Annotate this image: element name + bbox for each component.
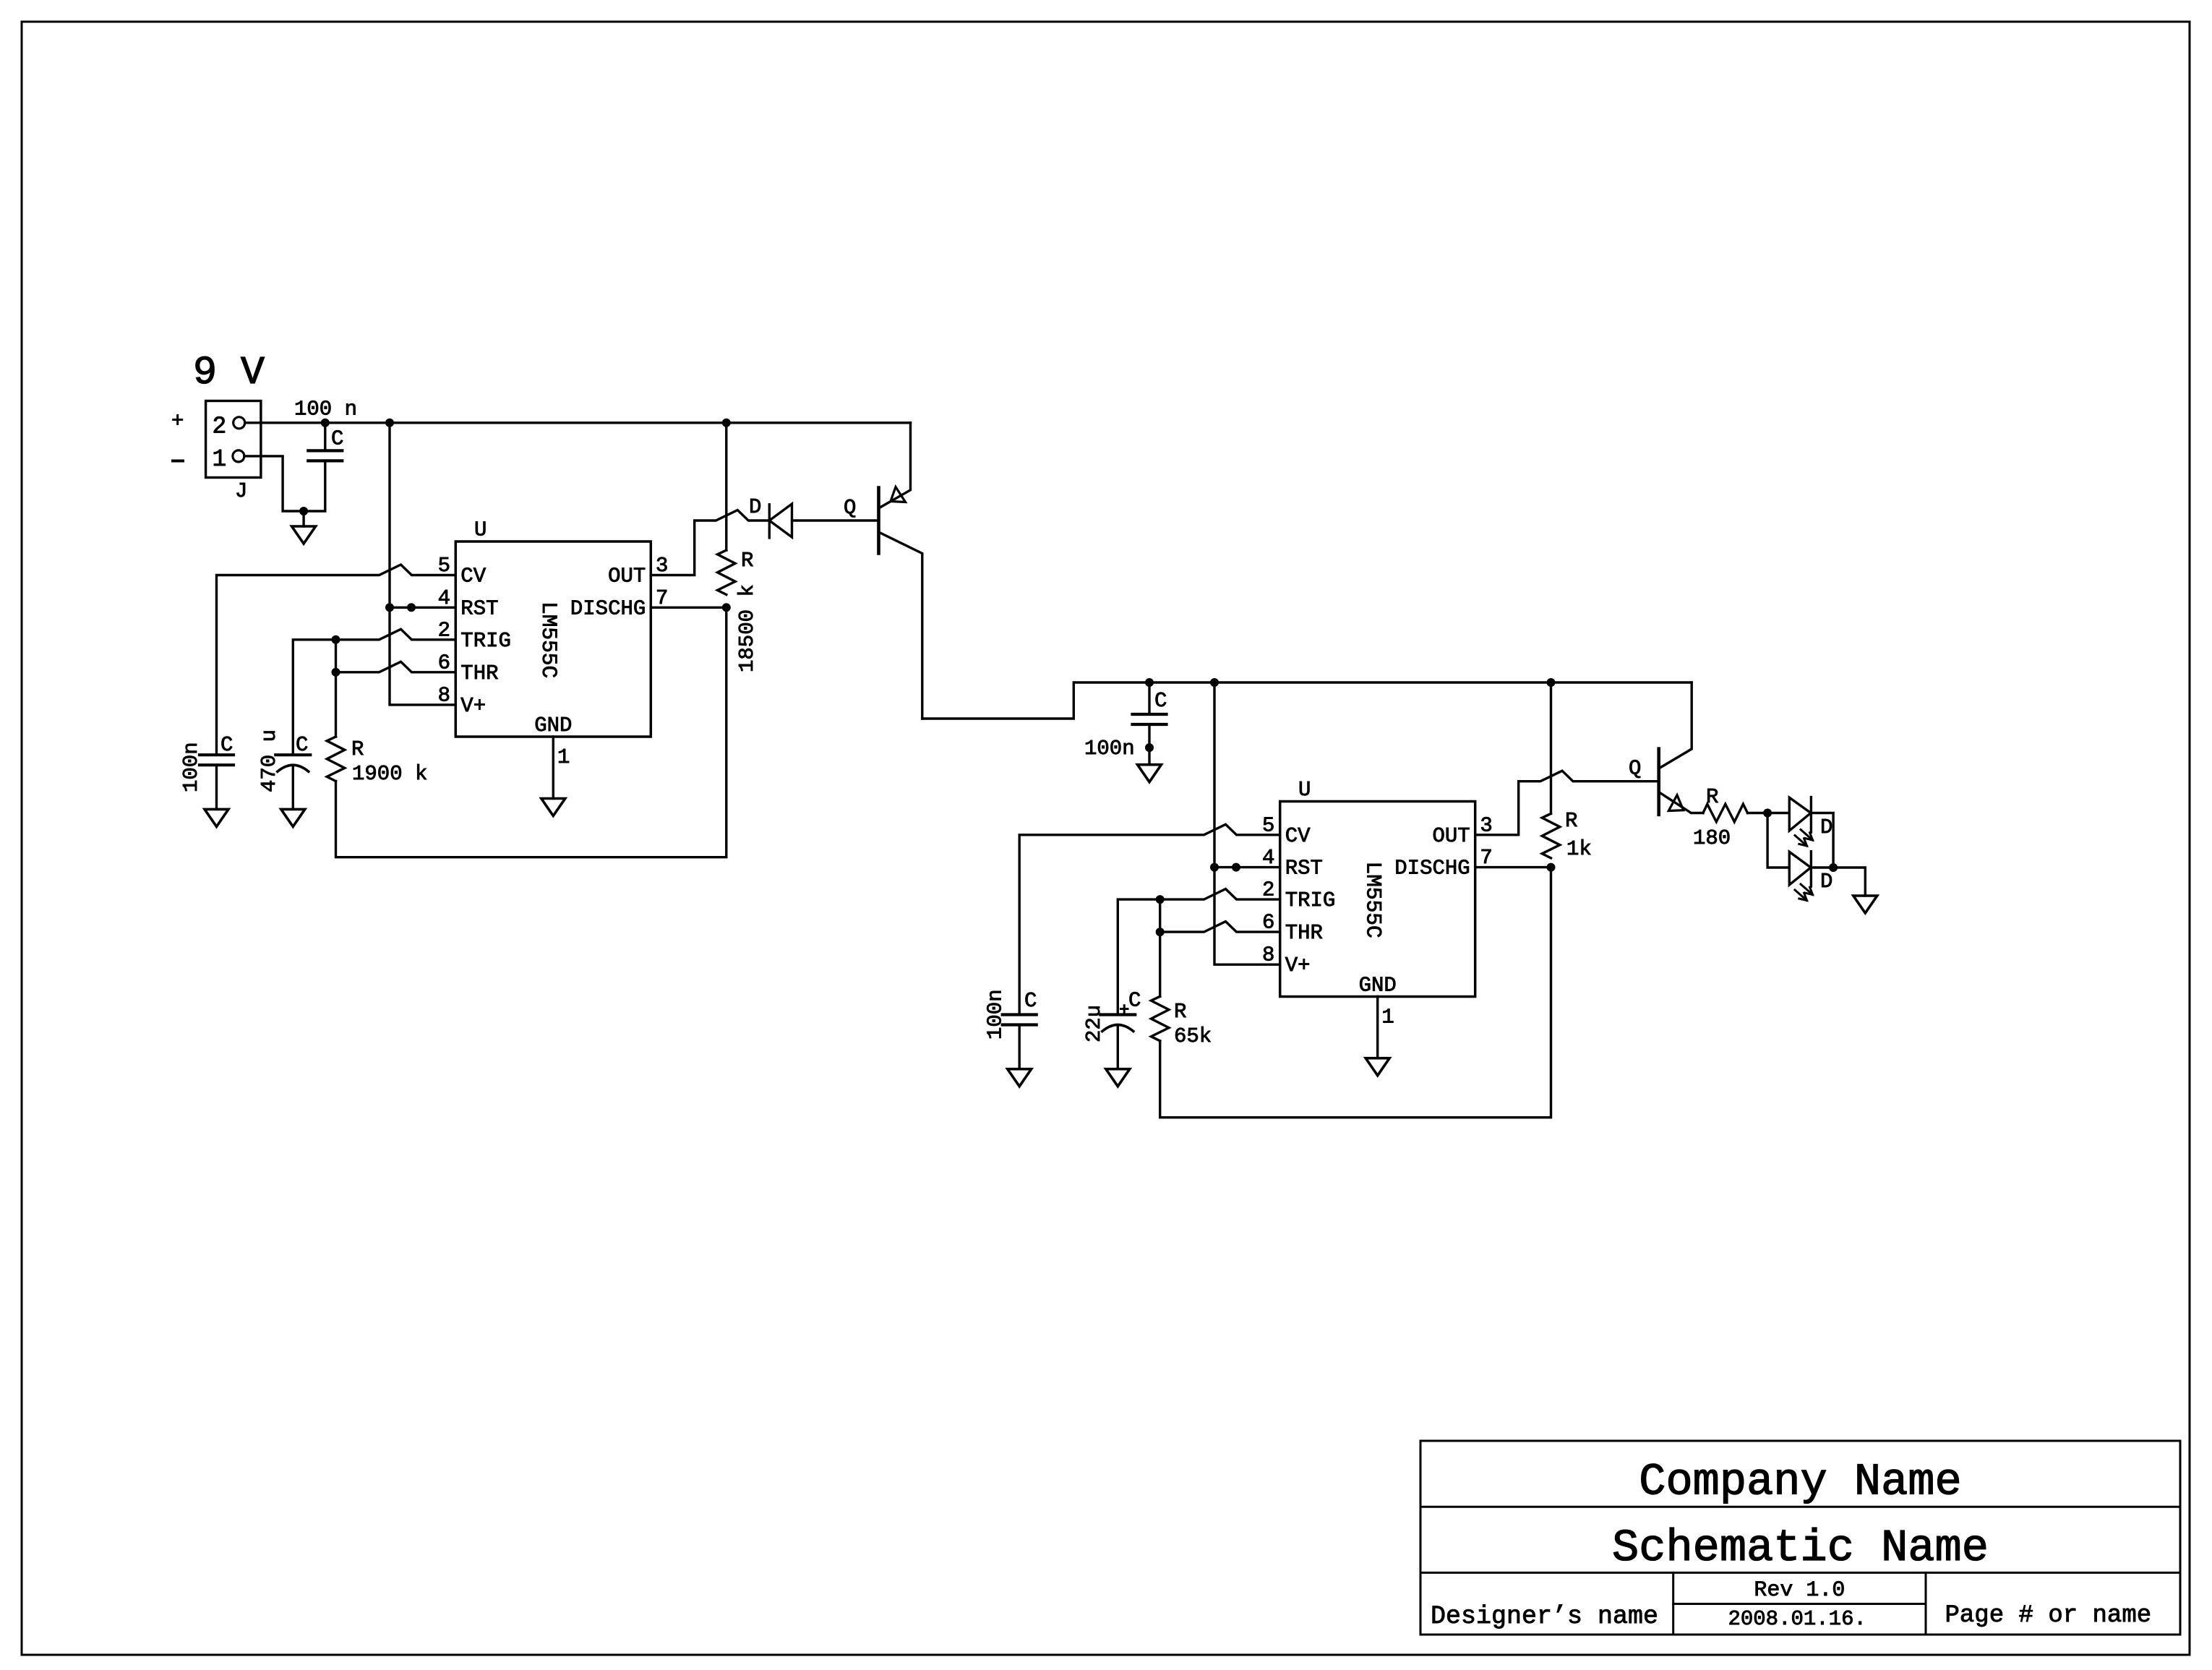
svg-text:TRIG: TRIG — [1285, 888, 1336, 912]
svg-text:Designer’s name: Designer’s name — [1431, 1602, 1658, 1631]
wire diode D1 to Q1 base — [792, 519, 879, 521]
ground symbol below C5 — [1008, 1069, 1032, 1087]
ground symbol below C6 — [1106, 1069, 1130, 1087]
resistor R4 65k zigzag — [1151, 996, 1169, 1041]
LED D3 emission arrows — [1801, 884, 1813, 895]
node junction rail / R1 18500k — [722, 419, 731, 427]
svg-text:Rev 1.0: Rev 1.0 — [1754, 1578, 1845, 1603]
wire TRIG2-THR2 tie down — [1159, 899, 1161, 932]
svg-text:C: C — [331, 427, 343, 451]
transistor Q2 collector to rail2 — [1659, 682, 1692, 768]
connector J1 (battery jack) body — [206, 401, 261, 478]
svg-text:R: R — [1174, 1000, 1186, 1024]
resistor R4 65k lead from THR2 junction — [1159, 932, 1161, 996]
svg-text:DISCHG: DISCHG — [1394, 857, 1470, 881]
svg-text:1: 1 — [557, 745, 570, 769]
svg-text:100n: 100n — [179, 742, 203, 792]
ground symbol below U2 — [1366, 1058, 1389, 1076]
junction dot on RST2 wire — [1232, 863, 1240, 872]
resistor R2 1900k lead from THR junction — [335, 672, 337, 737]
svg-text:J: J — [235, 479, 247, 503]
transistor Q1 PNP base bar — [877, 488, 880, 554]
svg-text:THR: THR — [460, 661, 498, 685]
wire U2 RST net — [1214, 866, 1280, 868]
wire TRIG-THR tie down to R2 — [335, 640, 337, 672]
connector J1 pin 1 circle — [233, 450, 244, 462]
node junction rail / C1 — [321, 419, 330, 427]
svg-text:R: R — [741, 549, 753, 573]
junction RST2 / V+ drop2 — [1210, 863, 1219, 872]
junction above ground (C4) — [1145, 743, 1154, 752]
ground symbol below C4 — [1148, 748, 1150, 765]
svg-text:Q: Q — [844, 496, 856, 520]
svg-text:470 u: 470 u — [257, 729, 281, 792]
junction THR2 / R4 — [1156, 928, 1165, 936]
junction RST / V+ drop — [385, 603, 394, 612]
svg-text:R: R — [351, 737, 364, 761]
svg-text:1: 1 — [1381, 1006, 1394, 1029]
svg-text:65k: 65k — [1174, 1024, 1212, 1048]
wire U1 RST net — [390, 607, 455, 609]
capacitor C1 lower lead — [304, 461, 325, 511]
resistor R3 1k zigzag — [1542, 813, 1560, 858]
ground symbol (battery return) — [302, 511, 304, 526]
svg-text:RST: RST — [1285, 857, 1323, 881]
wire Q1 collector to circuit 2 V+ rail — [922, 682, 1692, 719]
U2 GND pin stem — [1376, 997, 1379, 1058]
LED D2 triangle — [1789, 797, 1811, 831]
svg-text:OUT: OUT — [1432, 824, 1470, 848]
wire U2 CV net with hop to C5 100n — [1019, 824, 1280, 1014]
diode D1 triangle — [769, 504, 792, 537]
junction DISCHG2 / R3 — [1547, 863, 1556, 872]
svg-text:1900 k: 1900 k — [352, 762, 427, 786]
label - (negative terminal) — [173, 460, 183, 463]
svg-text:2008.01.16.: 2008.01.16. — [1728, 1607, 1866, 1631]
svg-text:Page # or name: Page # or name — [1945, 1602, 2152, 1630]
svg-text:C: C — [296, 733, 308, 757]
title block outer frame — [1420, 1441, 2180, 1635]
svg-text:TRIG: TRIG — [460, 629, 511, 653]
title block divider between rev and date — [1673, 1603, 1926, 1605]
transistor Q1 emitter with arrow to rail — [879, 423, 911, 508]
transistor Q2 NPN base bar — [1657, 749, 1660, 815]
resistor R2 1900k zigzag — [327, 737, 345, 782]
LED D2 cathode bar — [1810, 797, 1812, 833]
svg-text:CV: CV — [1285, 824, 1311, 848]
wire U1 CV net with hop to C2 100n — [217, 565, 456, 755]
wire V+ rail from J pin 2 to transistor Q1 emitter drop — [245, 421, 911, 424]
capacitor C6 lower lead — [1117, 1026, 1119, 1069]
svg-text:LM555C: LM555C — [1361, 862, 1386, 938]
svg-text:8: 8 — [438, 683, 450, 707]
svg-text:THR: THR — [1285, 921, 1323, 945]
wire U1 THR net with hop — [336, 661, 456, 672]
wire V+ drop from rail to U1 V+ pin 8 and RST — [390, 423, 455, 705]
resistor R5 180 zigzag — [1703, 804, 1748, 822]
wire D2 cathode to D3 cathode — [1811, 813, 1833, 868]
svg-text:D: D — [1820, 815, 1832, 839]
svg-text:D: D — [749, 495, 761, 519]
ground symbol below C2 — [205, 809, 228, 826]
svg-text:RST: RST — [460, 596, 498, 620]
wire V+ drop2 from rail to U2 V+ pin 8 and RST — [1214, 682, 1280, 964]
node junction rail / U1 feed — [385, 419, 394, 427]
junction D2/D3 cathodes — [1829, 863, 1838, 872]
svg-text:C: C — [1128, 989, 1141, 1013]
capacitor C3 470u plates (polarized) — [275, 753, 310, 756]
LED D3 cathode bar — [1810, 852, 1812, 887]
svg-text:1k: 1k — [1566, 837, 1592, 861]
U2 IC body LM555C — [1280, 802, 1475, 997]
svg-text:100n: 100n — [984, 989, 1008, 1040]
svg-text:C: C — [1024, 989, 1037, 1013]
title block vertical divider right of rev cell — [1925, 1572, 1927, 1635]
svg-text:+: + — [171, 409, 184, 433]
svg-text:U: U — [1298, 778, 1311, 802]
svg-text:Q: Q — [1629, 757, 1641, 781]
plus sign (C6 polarity) — [1121, 1008, 1128, 1010]
wire U1 TRIG net with hop — [293, 629, 455, 755]
capacitor C6 22u plates (polarized) — [1100, 1013, 1135, 1016]
svg-text:9 V: 9 V — [193, 350, 265, 395]
svg-text:C: C — [1154, 689, 1167, 713]
capacitor C3 lower lead — [292, 766, 294, 809]
wire U1 OUT net to diode D1 — [651, 510, 769, 575]
wire R2 bottom loop to DISCHG node — [336, 607, 726, 857]
resistor R1 18500k zigzag — [718, 550, 736, 595]
capacitor C5 100n plates — [1003, 1013, 1037, 1016]
ground symbol after LEDs — [1853, 896, 1877, 913]
wire U2 THR net with hop — [1160, 922, 1280, 933]
resistor R3 1k lead from rail2 — [1550, 682, 1552, 813]
diode D1 cathode bar — [768, 505, 771, 538]
wire U2 OUT net to Q2 base with hop — [1475, 771, 1659, 835]
svg-text:V+: V+ — [460, 694, 486, 718]
junction TRIG2 / THR2 tie — [1156, 895, 1165, 904]
capacitor C2 100n plates — [200, 753, 233, 756]
resistor R1 18500k lead from rail — [725, 423, 727, 550]
svg-text:OUT: OUT — [608, 565, 646, 588]
svg-text:1: 1 — [213, 446, 227, 473]
svg-text:GND: GND — [1359, 974, 1397, 998]
junction DISCHG / R1 — [722, 603, 731, 612]
ground node junction — [299, 507, 308, 515]
wire U2 TRIG net with hop — [1118, 889, 1279, 1015]
svg-text:GND: GND — [534, 714, 572, 737]
wire J pin 1 to ground node — [244, 456, 304, 511]
junction THR / R2 — [332, 668, 340, 677]
svg-text:180: 180 — [1693, 826, 1731, 850]
ground symbol below C3 — [281, 809, 305, 826]
wire R5 to LED node — [1748, 812, 1790, 814]
wire U1 DISCHG net — [651, 607, 726, 609]
svg-text:100n: 100n — [1084, 737, 1135, 761]
wire U2 DISCHG net — [1475, 866, 1551, 868]
junction rail2 / C4 — [1145, 678, 1154, 687]
wire R4 bottom loop to DISCHG2 node — [1160, 868, 1551, 1118]
capacitor C1 100n plates — [308, 449, 342, 452]
svg-text:CV: CV — [460, 565, 486, 588]
capacitor C1 100n lead from rail — [324, 423, 326, 451]
svg-text:18500 k: 18500 k — [735, 584, 759, 672]
title block vertical divider left of rev cell — [1672, 1572, 1674, 1635]
U1 IC body LM555C — [455, 541, 651, 737]
svg-text:Schematic Name: Schematic Name — [1612, 1523, 1989, 1574]
title block divider under schematic row — [1420, 1572, 2180, 1574]
svg-text:U: U — [474, 518, 486, 542]
junction rail2 / U2 feed — [1210, 678, 1219, 687]
wire D3 cathode to ground — [1811, 868, 1865, 896]
transistor Q2 emitter with arrow — [1659, 792, 1703, 813]
ground symbol below U1 — [541, 799, 565, 816]
svg-text:V+: V+ — [1285, 954, 1311, 977]
capacitor C2 lower lead — [215, 765, 218, 809]
LED D3 triangle — [1789, 852, 1811, 885]
wire LED anode node down to D3 — [1767, 813, 1789, 868]
svg-text:LM555C: LM555C — [536, 601, 561, 678]
svg-text:100 n: 100 n — [294, 398, 357, 421]
junction TRIG / THR tie — [332, 635, 340, 644]
svg-text:D: D — [1820, 870, 1832, 894]
capacitor C4 100n plates — [1133, 713, 1167, 716]
U1 GND pin stem — [552, 737, 554, 799]
connector J1 pin 2 circle — [233, 417, 245, 429]
svg-text:22u: 22u — [1082, 1005, 1106, 1042]
junction rail2 / R3 1k — [1547, 678, 1556, 687]
svg-text:C: C — [220, 733, 233, 757]
capacitor C4 100n lead from rail2 — [1148, 682, 1150, 714]
svg-text:8: 8 — [1262, 943, 1274, 967]
svg-text:DISCHG: DISCHG — [570, 596, 646, 620]
svg-text:R: R — [1706, 785, 1718, 809]
svg-text:R: R — [1565, 809, 1577, 833]
capacitor C4 lower lead — [1148, 724, 1150, 748]
junction LED anode node — [1763, 809, 1772, 818]
transistor Q1 collector — [879, 532, 922, 719]
svg-text:Company Name: Company Name — [1639, 1457, 1961, 1508]
LED D2 emission arrows — [1801, 830, 1813, 841]
junction dot on RST wire — [407, 603, 416, 612]
title block divider under company row — [1420, 1506, 2180, 1508]
svg-text:2: 2 — [213, 414, 227, 440]
capacitor C5 lower lead — [1018, 1025, 1020, 1069]
